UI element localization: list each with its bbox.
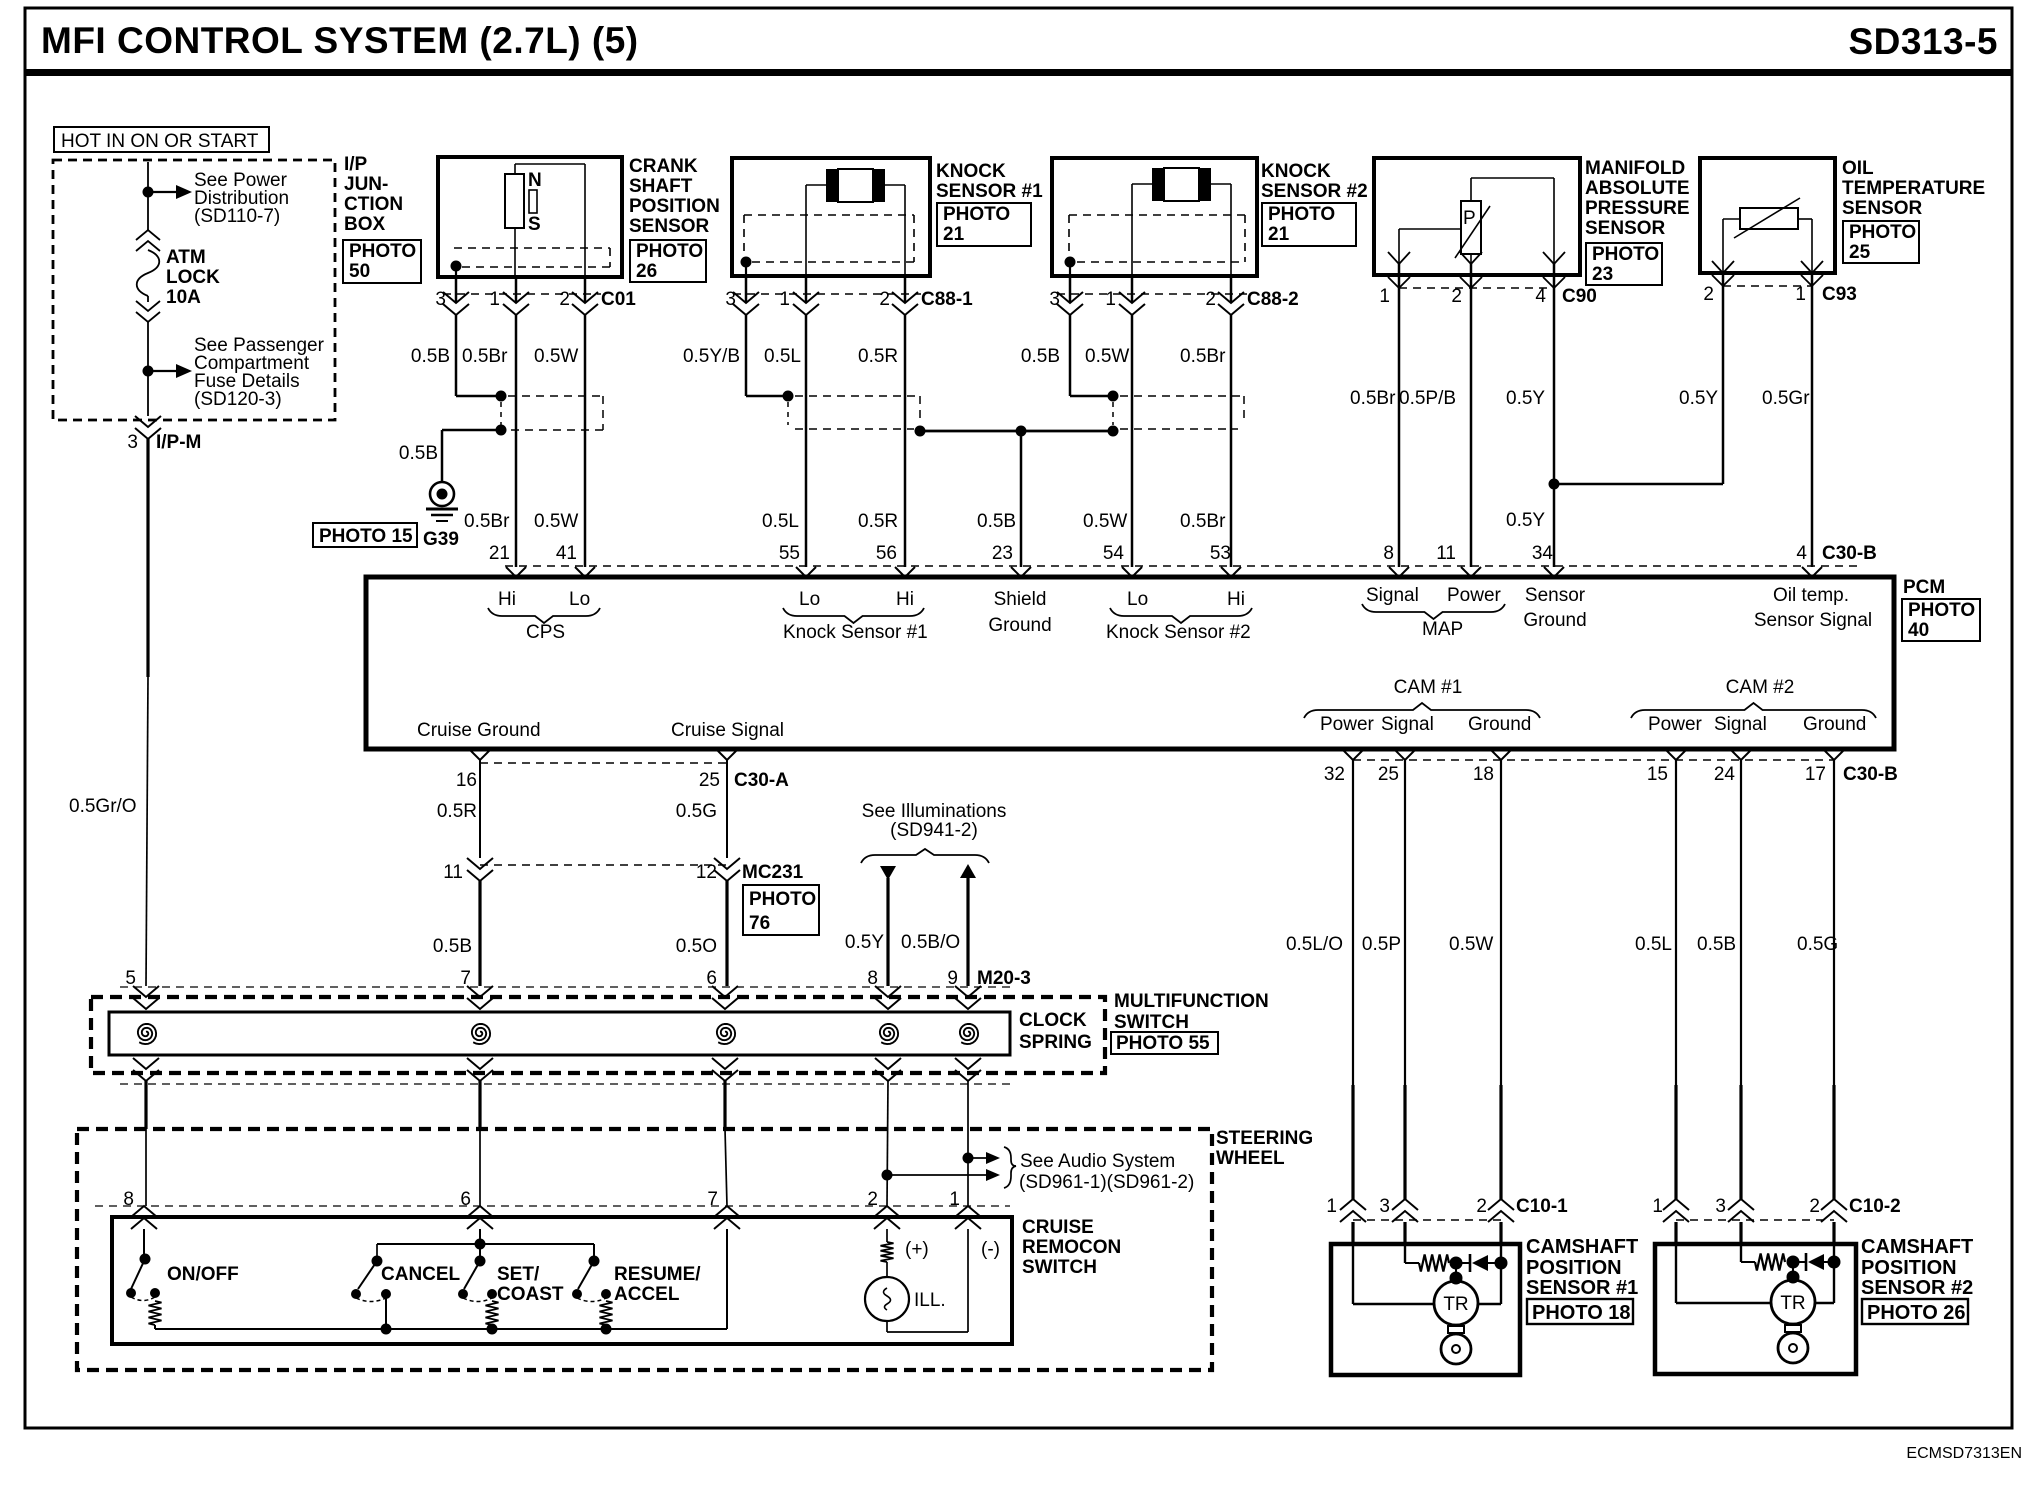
svg-text:0.5W: 0.5W: [534, 346, 578, 367]
svg-text:7: 7: [460, 968, 471, 989]
label box PHOTO 15: [313, 523, 417, 547]
svg-text:5: 5: [125, 968, 136, 989]
label box PHOTO 21 (knock 2): [1262, 203, 1356, 246]
svg-text:6: 6: [460, 1189, 471, 1210]
svg-text:0.5L: 0.5L: [1635, 934, 1672, 955]
wire 0.5Y illumination to M20-3 pin 8: [886, 878, 889, 986]
shield ground bus wire: [920, 430, 1113, 433]
svg-text:25: 25: [1849, 242, 1871, 263]
svg-text:0.5R: 0.5R: [858, 346, 898, 367]
svg-text:1: 1: [1105, 289, 1116, 310]
svg-text:C01: C01: [601, 289, 636, 310]
svg-text:76: 76: [749, 913, 770, 934]
svg-text:C10-2: C10-2: [1849, 1196, 1901, 1217]
wire 0.5L/O cam1 power: [1352, 760, 1354, 1085]
wire 0.5Y/B from C88-1 pin 3: [745, 315, 748, 396]
svg-text:3: 3: [1379, 1196, 1390, 1217]
svg-text:ACCEL: ACCEL: [614, 1284, 680, 1305]
oil temp pin arrows inside box: [1712, 261, 1734, 273]
svg-text:0.5Gr/O: 0.5Gr/O: [69, 796, 137, 817]
wire 0.5Br from C90 pin 1 to PCM pin 8: [1398, 288, 1401, 567]
CSPS shield dashed box below connector: [508, 395, 603, 397]
svg-text:0.5Br: 0.5Br: [1350, 388, 1396, 409]
svg-text:ABSOLUTE: ABSOLUTE: [1585, 178, 1690, 199]
wire 0.5B from C88-2 pin 3: [1069, 315, 1072, 396]
svg-text:0.5B: 0.5B: [1697, 934, 1736, 955]
svg-text:2: 2: [1476, 1196, 1487, 1217]
wire 0.5B to ground G39: [442, 429, 501, 432]
svg-text:ON/OFF: ON/OFF: [167, 1264, 239, 1285]
svg-text:PCM: PCM: [1903, 577, 1945, 598]
svg-text:LOCK: LOCK: [166, 267, 220, 288]
brace knock sensor 2: [1110, 608, 1252, 623]
arrow to audio system 1: [968, 1157, 986, 1159]
label box PHOTO 50: [343, 240, 421, 283]
svg-text:2: 2: [879, 289, 890, 310]
dashed line below clock spring: [120, 1083, 1010, 1085]
label box PHOTO 26 (cam2): [1862, 1299, 1968, 1324]
svg-text:11: 11: [1436, 543, 1456, 564]
knock sensor 1 shield dashed box below connector: [795, 395, 920, 397]
cam1 internal pin3 wire: [1404, 1244, 1406, 1263]
svg-text:BOX: BOX: [344, 214, 386, 235]
connector MC231 dashed line: [480, 864, 727, 866]
clock spring coil pin 6: [717, 1024, 735, 1044]
svg-text:0.5Br: 0.5Br: [462, 346, 508, 367]
wire 0.5L cam2 power: [1675, 760, 1677, 1085]
svg-text:HOT IN ON OR START: HOT IN ON OR START: [61, 131, 259, 152]
svg-text:54: 54: [1103, 543, 1125, 564]
svg-text:12: 12: [696, 862, 717, 883]
clock spring output chevrons: [133, 1058, 159, 1069]
svg-text:25: 25: [699, 770, 720, 791]
knock sensor 1 shield dashed boundary: [744, 214, 914, 216]
svg-text:50: 50: [349, 261, 370, 282]
cam1 internal pin2 wire: [1500, 1244, 1502, 1304]
connector C10-1 dashed line: [1353, 1219, 1501, 1221]
svg-text:0.5R: 0.5R: [858, 511, 898, 532]
CSPS internal wiring: [515, 163, 585, 165]
wires into camshaft sensor 1: [1351, 1222, 1354, 1244]
svg-text:C88-1: C88-1: [921, 289, 973, 310]
svg-text:TR: TR: [1780, 1293, 1805, 1314]
svg-text:21: 21: [1268, 224, 1290, 245]
svg-text:C90: C90: [1562, 286, 1597, 307]
knock sensor 2 piezo element: [1152, 168, 1164, 201]
junction node to passenger fuse details: [143, 366, 154, 377]
label box PHOTO 25: [1843, 221, 1919, 263]
svg-text:RESUME/: RESUME/: [614, 1264, 701, 1285]
svg-text:SET/: SET/: [497, 1264, 540, 1285]
wire pin9 to steering wheel: [967, 1081, 969, 1206]
svg-text:Shield: Shield: [994, 589, 1047, 610]
connector C10-2 dashed line: [1676, 1219, 1834, 1221]
wire from fuse box top: [147, 162, 149, 192]
svg-text:Power: Power: [1320, 714, 1375, 735]
knock sensor 2 shield node: [1065, 257, 1076, 268]
PCM pin V arrows top edge: [506, 567, 526, 577]
connector C93: [1722, 273, 1725, 286]
knock sensor 2 internal wires: [1132, 183, 1152, 185]
PCM connector dashed line top: [505, 565, 1860, 567]
svg-text:PHOTO 18: PHOTO 18: [1532, 1302, 1631, 1324]
svg-text:Sensor: Sensor: [1525, 585, 1586, 606]
svg-text:34: 34: [1532, 543, 1554, 564]
wire 0.5B from C01 pin 3: [455, 315, 458, 396]
svg-text:PRESSURE: PRESSURE: [1585, 198, 1690, 219]
wire 0.5W cam1 ground: [1500, 760, 1502, 1085]
svg-text:7: 7: [707, 1189, 718, 1210]
cam2 transistor TR: [1771, 1280, 1815, 1324]
wire pin5 to steering wheel: [144, 1081, 147, 1129]
svg-text:CLOCK: CLOCK: [1019, 1010, 1087, 1031]
svg-text:15: 15: [1647, 764, 1668, 785]
cam1 resistor: [1405, 1262, 1419, 1264]
cruise remocon switch box: [112, 1217, 1012, 1344]
svg-text:Lo: Lo: [799, 589, 820, 610]
svg-text:ILL.: ILL.: [914, 1290, 946, 1311]
svg-text:53: 53: [1210, 543, 1231, 564]
connector dashed line cruise: [95, 1205, 1010, 1207]
svg-text:0.5B: 0.5B: [399, 443, 438, 464]
MAP internal wires: [1470, 178, 1472, 201]
svg-text:SWITCH: SWITCH: [1114, 1012, 1189, 1033]
wire pin7 to steering wheel: [478, 1081, 481, 1129]
svg-text:32: 32: [1324, 764, 1345, 785]
oil temperature sensor box: [1700, 158, 1835, 273]
connector I/P-M pin 3: [135, 416, 161, 427]
svg-text:55: 55: [779, 543, 800, 564]
brace CAM #2: [1631, 703, 1876, 718]
cam2 node on pin2 wire: [1828, 1256, 1841, 1269]
svg-text:CANCEL: CANCEL: [381, 1264, 461, 1285]
cam2 resistor: [1741, 1261, 1755, 1263]
svg-text:PHOTO: PHOTO: [1849, 222, 1916, 243]
svg-text:PHOTO: PHOTO: [943, 204, 1010, 225]
svg-text:Signal: Signal: [1714, 714, 1767, 735]
svg-text:N: N: [528, 170, 542, 191]
wire to fuse: [147, 192, 149, 231]
svg-text:0.5Y: 0.5Y: [1506, 388, 1545, 409]
svg-text:PHOTO: PHOTO: [1268, 204, 1335, 225]
svg-text:3: 3: [725, 289, 736, 310]
svg-text:CRUISE: CRUISE: [1022, 1217, 1094, 1238]
svg-text:0.5G: 0.5G: [676, 801, 717, 822]
svg-text:P: P: [1463, 208, 1476, 229]
svg-text:Power: Power: [1648, 714, 1703, 735]
svg-text:Ground: Ground: [988, 615, 1051, 636]
svg-text:PHOTO: PHOTO: [1908, 600, 1975, 621]
label box PHOTO 21 (knock 1): [937, 203, 1031, 246]
camshaft position sensor 1 box: [1331, 1244, 1520, 1375]
svg-text:4: 4: [1796, 543, 1807, 564]
lamp ILL: [865, 1277, 909, 1321]
svg-text:MC231: MC231: [742, 862, 804, 883]
svg-text:(+): (+): [905, 1239, 929, 1260]
knock sensor 2 shield dashed box below connector: [1120, 395, 1244, 397]
svg-text:PHOTO: PHOTO: [1592, 244, 1659, 265]
svg-text:JUN-: JUN-: [344, 174, 388, 195]
svg-text:26: 26: [636, 261, 657, 282]
svg-text:0.5L/O: 0.5L/O: [1286, 934, 1343, 955]
connector MC231 chevron pin 11: [467, 858, 493, 869]
svg-text:PHOTO 55: PHOTO 55: [1116, 1033, 1210, 1054]
svg-text:Signal: Signal: [1381, 714, 1434, 735]
svg-text:WHEEL: WHEEL: [1216, 1148, 1285, 1169]
cam1 internal pin1 wire: [1352, 1244, 1354, 1304]
svg-text:REMOCON: REMOCON: [1022, 1237, 1121, 1258]
svg-text:0.5Y: 0.5Y: [845, 932, 884, 953]
label box HOT IN ON OR START: [54, 127, 269, 152]
junction node to power distribution: [143, 187, 154, 198]
svg-text:41: 41: [556, 543, 577, 564]
svg-text:0.5B: 0.5B: [1021, 346, 1060, 367]
connector C88-1: [745, 276, 748, 303]
svg-text:CTION: CTION: [344, 194, 403, 215]
wire 0.5Br from C01 pin 1 to PCM pin 21: [515, 315, 518, 567]
svg-text:Ground: Ground: [1803, 714, 1866, 735]
brace MAP: [1362, 604, 1505, 619]
svg-text:(SD961-1)(SD961-2): (SD961-1)(SD961-2): [1019, 1172, 1194, 1193]
wire 0.5W from C01 pin 2 to PCM pin 41: [584, 315, 587, 567]
svg-text:SD313-5: SD313-5: [1848, 21, 1998, 62]
wire 0.5G from PCM pin 25 to MC231: [726, 760, 728, 858]
svg-text:Oil temp.: Oil temp.: [1773, 585, 1849, 606]
wire 0.5Gr/O from I/P-M to multifunction switch pin 5: [146, 439, 149, 677]
wire 0.5L from C88-1 pin 1 to PCM pin 55: [805, 315, 808, 567]
svg-text:4: 4: [1535, 286, 1546, 307]
clock spring coil pin 7: [472, 1024, 490, 1044]
svg-text:2: 2: [1205, 289, 1216, 310]
lamp return wire: [886, 1321, 888, 1332]
svg-text:(SD120-3): (SD120-3): [194, 389, 282, 410]
cam1 transistor TR: [1434, 1281, 1478, 1325]
brace see illuminations: [861, 849, 989, 863]
svg-text:0.5L: 0.5L: [762, 511, 799, 532]
svg-text:C30-A: C30-A: [734, 770, 789, 791]
title separator bar: [25, 69, 2012, 76]
svg-text:CAM #1: CAM #1: [1394, 677, 1463, 698]
svg-text:1: 1: [779, 289, 790, 310]
svg-text:3: 3: [1049, 289, 1060, 310]
illumination lamp branch: [886, 1229, 888, 1242]
junction node audio 2: [882, 1170, 893, 1181]
svg-text:0.5Y: 0.5Y: [1679, 388, 1718, 409]
cam1 node on pin2 wire: [1495, 1257, 1508, 1270]
knock sensor 1 internal wires: [806, 184, 826, 186]
wires into camshaft sensor 2: [1674, 1222, 1677, 1244]
svg-text:8: 8: [867, 968, 878, 989]
steering wheel dashed box: [77, 1129, 1212, 1370]
wire 0.5R from PCM pin 16 to MC231: [479, 760, 481, 858]
arrow to See Passenger Compartment: [148, 370, 178, 372]
cam1 node A: [1450, 1257, 1463, 1270]
connector C01: [455, 277, 458, 303]
svg-text:1: 1: [949, 1189, 960, 1210]
svg-text:21: 21: [489, 543, 510, 564]
svg-text:1: 1: [1326, 1196, 1337, 1217]
svg-text:KNOCK: KNOCK: [936, 161, 1006, 182]
CSPS ground junction node B: [496, 425, 507, 436]
svg-text:0.5Br: 0.5Br: [1180, 346, 1226, 367]
wire to I/P-M connector: [147, 371, 149, 416]
wire 0.5Br from C88-2 pin 2 to PCM pin 53: [1230, 315, 1233, 567]
svg-text:COAST: COAST: [497, 1284, 564, 1305]
svg-text:SWITCH: SWITCH: [1022, 1257, 1097, 1278]
connector C30-B dashed line: [1353, 759, 1834, 761]
wire 0.5O from MC231 to M20-3 pin 6: [725, 881, 728, 986]
svg-text:Hi: Hi: [498, 589, 516, 610]
svg-text:0.5G: 0.5G: [1797, 934, 1838, 955]
svg-text:POSITION: POSITION: [1861, 1257, 1957, 1279]
brace CAM #1: [1304, 703, 1540, 718]
wire 0.5G cam2 ground: [1833, 760, 1835, 1085]
svg-text:SENSOR: SENSOR: [629, 216, 710, 237]
cam2 internal pin1 wire: [1675, 1244, 1677, 1303]
svg-text:CAM #2: CAM #2: [1726, 677, 1795, 698]
arrow to See Power Distribution: [148, 191, 178, 193]
connector C90: [1398, 264, 1401, 288]
svg-text:MANIFOLD: MANIFOLD: [1585, 158, 1685, 179]
knock sensor 2 shield junction node: [1108, 391, 1119, 402]
junction node audio 1: [963, 1153, 974, 1164]
crank shaft position sensor box: [438, 157, 622, 277]
brace CPS: [488, 608, 600, 623]
connector C88-2: [1069, 276, 1072, 303]
label box PHOTO 55: [1111, 1032, 1218, 1054]
svg-text:SENSOR #2: SENSOR #2: [1261, 181, 1368, 202]
svg-text:MAP: MAP: [1422, 619, 1463, 640]
svg-text:1: 1: [1379, 286, 1390, 307]
svg-text:See Audio System: See Audio System: [1020, 1151, 1175, 1172]
svg-text:6: 6: [706, 968, 717, 989]
connector MC231 chevron pin 12: [714, 858, 740, 869]
svg-text:2: 2: [1809, 1196, 1820, 1217]
svg-text:0.5R: 0.5R: [437, 801, 477, 822]
switch SET/COAST: [479, 1229, 481, 1259]
clock spring coil pin 5: [138, 1024, 156, 1044]
svg-text:ECMSD7313EN: ECMSD7313EN: [1906, 1445, 2022, 1462]
label box PHOTO 18: [1527, 1299, 1633, 1324]
svg-text:CAMSHAFT: CAMSHAFT: [1526, 1236, 1638, 1258]
clock spring coil pin 9: [960, 1024, 978, 1044]
svg-text:56: 56: [876, 543, 897, 564]
svg-text:0.5Gr: 0.5Gr: [1762, 388, 1810, 409]
svg-text:SENSOR #1: SENSOR #1: [936, 181, 1043, 202]
svg-text:(SD110-7): (SD110-7): [194, 206, 280, 227]
svg-text:SPRING: SPRING: [1019, 1032, 1092, 1053]
svg-text:0.5B: 0.5B: [977, 511, 1016, 532]
clock spring box: [109, 1012, 1010, 1055]
wire from fuse down: [147, 322, 149, 371]
svg-text:23: 23: [992, 543, 1013, 564]
svg-text:Ground: Ground: [1523, 610, 1586, 631]
svg-text:S: S: [528, 214, 541, 235]
svg-text:C30-B: C30-B: [1822, 543, 1877, 564]
knock sensor 2 box: [1052, 158, 1257, 276]
svg-text:SENSOR: SENSOR: [1842, 198, 1923, 219]
wire 0.5B/O illumination to M20-3 pin 9: [966, 876, 969, 986]
svg-text:1: 1: [1795, 284, 1806, 305]
svg-text:PHOTO: PHOTO: [636, 241, 703, 262]
svg-text:0.5B: 0.5B: [411, 346, 450, 367]
svg-text:Lo: Lo: [569, 589, 590, 610]
svg-text:0.5Br: 0.5Br: [464, 511, 510, 532]
svg-text:Power: Power: [1447, 585, 1502, 606]
wire pin6 to steering wheel: [723, 1081, 726, 1129]
cam2 internal pin2 wire: [1833, 1244, 1835, 1303]
wire 0.5B from MC231 to M20-3 pin 7: [478, 881, 481, 986]
svg-text:STEERING: STEERING: [1216, 1128, 1313, 1149]
multifunction switch dashed box: [91, 997, 1105, 1073]
switch ON/OFF: [143, 1229, 145, 1257]
svg-text:Signal: Signal: [1366, 585, 1419, 606]
cruise switch common bus: [154, 1325, 156, 1329]
svg-text:C30-B: C30-B: [1843, 764, 1898, 785]
svg-text:OIL: OIL: [1842, 158, 1874, 179]
svg-text:0.5W: 0.5W: [534, 511, 578, 532]
cam2 node above transistor: [1787, 1271, 1800, 1284]
svg-text:TEMPERATURE: TEMPERATURE: [1842, 178, 1985, 199]
svg-text:KNOCK: KNOCK: [1261, 161, 1331, 182]
svg-text:SHAFT: SHAFT: [629, 176, 693, 197]
svg-text:2: 2: [1451, 286, 1462, 307]
clock spring coil pin 8: [880, 1024, 898, 1044]
brace knock sensor 1: [783, 608, 924, 623]
wire 0.5Y from C93 pin 2 to junction: [1722, 286, 1725, 484]
connector M20-3 dashed line: [120, 986, 1010, 988]
wire pin8 to steering wheel: [887, 1081, 888, 1206]
cam2 pickup coil: [1785, 1325, 1801, 1332]
svg-text:CAMSHAFT: CAMSHAFT: [1861, 1236, 1973, 1258]
svg-text:Sensor Signal: Sensor Signal: [1754, 610, 1872, 631]
oil temp internal wires: [1723, 218, 1740, 220]
svg-text:11: 11: [443, 862, 463, 883]
svg-text:SENSOR #1: SENSOR #1: [1526, 1277, 1638, 1299]
wire and arrow to audio system 2: [887, 1174, 986, 1176]
svg-text:0.5Br: 0.5Br: [1180, 511, 1226, 532]
camshaft position sensor 2 box: [1655, 1244, 1856, 1374]
svg-text:0.5B: 0.5B: [433, 936, 472, 957]
cam1 diode: [1456, 1262, 1470, 1264]
svg-text:24: 24: [1714, 764, 1736, 785]
label box PHOTO 76: [743, 885, 819, 935]
svg-text:Hi: Hi: [896, 589, 914, 610]
svg-text:25: 25: [1378, 764, 1399, 785]
dashed fuse-box boundary (I/P junction box): [53, 160, 335, 420]
svg-text:I/P-M: I/P-M: [156, 432, 201, 453]
svg-text:2: 2: [1703, 284, 1714, 305]
svg-text:CRANK: CRANK: [629, 156, 698, 177]
svg-text:ATM: ATM: [166, 247, 206, 268]
svg-text:0.5W: 0.5W: [1085, 346, 1129, 367]
cam2 node A: [1787, 1256, 1800, 1269]
svg-text:0.5B/O: 0.5B/O: [901, 932, 960, 953]
wire 0.5P/B from C90 pin 2 to PCM pin 11: [1470, 288, 1473, 567]
svg-text:8: 8: [1383, 543, 1394, 564]
svg-text:8: 8: [123, 1189, 134, 1210]
svg-text:PHOTO: PHOTO: [749, 889, 816, 910]
knock sensor 2 shield dashed boundary: [1069, 214, 1245, 216]
wire 0.5P cam1 signal: [1404, 760, 1406, 1085]
ground G39: [430, 482, 454, 506]
svg-text:G39: G39: [423, 529, 459, 550]
svg-text:23: 23: [1592, 264, 1613, 285]
svg-text:0.5O: 0.5O: [676, 936, 717, 957]
svg-text:POSITION: POSITION: [629, 196, 720, 217]
cruise switch top link wire: [377, 1243, 594, 1245]
MAP pin arrows inside box: [1388, 252, 1410, 264]
